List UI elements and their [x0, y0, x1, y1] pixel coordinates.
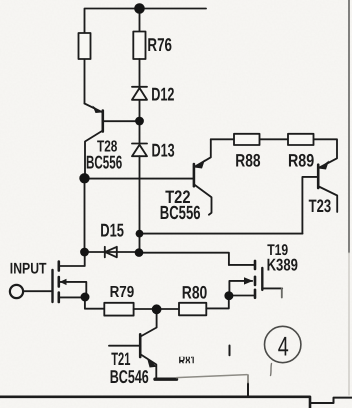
- svg-text:R80: R80: [182, 282, 208, 302]
- wire R79 to R80: [134, 308, 179, 310]
- arrow T28 emitter: [93, 106, 102, 114]
- fet left source wire: [59, 296, 85, 298]
- transistor T23 collector: [319, 187, 337, 212]
- svg-text:BC546: BC546: [110, 366, 149, 387]
- transistor T22 emitter: [195, 139, 211, 166]
- wire fet left source to R79: [85, 297, 104, 309]
- node R79 R80 junction: [152, 304, 162, 314]
- svg-text:R79: R79: [110, 284, 135, 301]
- node D15 right: [135, 248, 144, 257]
- transistor T28 base bar: [102, 111, 105, 132]
- svg-text:BC556: BC556: [160, 203, 201, 224]
- arrow T21 emitter: [147, 357, 157, 367]
- arrow T23 emitter: [319, 161, 330, 170]
- resistor R79: [104, 303, 133, 316]
- diode D13: [132, 144, 147, 157]
- fet left body wire: [60, 282, 86, 295]
- wire row 139 with R88 R89: [211, 139, 337, 167]
- fet T19 channel: [254, 261, 257, 298]
- resistor R89: [288, 134, 314, 145]
- svg-text:T23: T23: [309, 196, 332, 216]
- fading emitter wire: [177, 375, 248, 378]
- circle tail: [271, 364, 272, 376]
- resistor R88: [234, 134, 260, 145]
- transistor T21 emitter: [141, 355, 157, 379]
- resistor R76: [133, 32, 145, 60]
- svg-text:BC556: BC556: [86, 152, 122, 173]
- diode D15: [85, 247, 140, 257]
- transistor T21 collector: [141, 309, 157, 336]
- label R81 fragment: [179, 353, 196, 370]
- bottom step: [310, 398, 352, 403]
- node D15 anode left: [80, 248, 89, 257]
- svg-text:4: 4: [278, 331, 289, 361]
- fet left channel: [57, 262, 60, 303]
- wire T23 base to row 233: [302, 177, 317, 234]
- wire row 233: [140, 233, 303, 235]
- wire top rail: [85, 9, 207, 34]
- wire T28 base to node: [104, 120, 140, 122]
- fet T19 drain wire: [229, 264, 255, 266]
- arrowheads: [60, 106, 329, 368]
- transistor Q T28 emitter: [85, 104, 102, 112]
- right edge vertical line: [348, 0, 350, 253]
- wire left column mid: [84, 178, 86, 252]
- fet left gate bar: [51, 270, 53, 302]
- input terminal circle: [10, 285, 23, 298]
- wire R80 to T19 source node: [206, 296, 229, 309]
- wire left column upper: [84, 59, 86, 104]
- svg-text:D13: D13: [152, 140, 175, 161]
- svg-text:R88: R88: [235, 151, 260, 171]
- stray vertical dash: [229, 346, 231, 356]
- node row 233: [136, 230, 144, 238]
- svg-text:K389: K389: [267, 256, 298, 275]
- svg-text:D12: D12: [151, 84, 174, 105]
- wire main column top: [139, 9, 141, 32]
- wire row 252 right: [140, 253, 229, 265]
- arrow fet T19 body: [244, 277, 253, 284]
- fet T19 source wire: [229, 295, 255, 297]
- resistor unlabeled top-left: [79, 33, 91, 59]
- fet T19 body wire: [229, 281, 252, 296]
- svg-text:R89: R89: [288, 151, 314, 171]
- transistor T22 collector: [195, 185, 212, 215]
- wire node row 178: [85, 178, 194, 180]
- transistor T21 base bar: [139, 334, 142, 357]
- wire D12 to junction: [139, 100, 141, 143]
- fet left drain wire: [59, 252, 85, 266]
- fet T19 gate lead: [262, 287, 282, 289]
- stray vertical line bottom: [247, 383, 249, 397]
- node T28 collector: [79, 173, 89, 183]
- svg-text:D15: D15: [100, 220, 124, 241]
- svg-text:R76: R76: [147, 34, 172, 55]
- wire R76 to D12: [139, 59, 141, 87]
- transistor T23 base bar: [317, 165, 320, 188]
- arrow fet left body: [60, 279, 67, 285]
- arrow T22 emitter: [195, 160, 206, 169]
- transistor T21 base lead: [109, 345, 139, 347]
- svg-text:INPUT: INPUT: [10, 261, 47, 278]
- bottom border line: [0, 397, 310, 408]
- diode D12: [132, 87, 147, 100]
- node fet left source: [81, 293, 90, 302]
- transistor T21 emitter wire thick: [155, 378, 177, 381]
- wire input to gate: [23, 290, 52, 292]
- transistor T22 base bar: [193, 164, 196, 186]
- circled 4: [265, 326, 301, 362]
- node T19 source: [224, 291, 233, 300]
- resistor R80: [179, 303, 206, 316]
- node D12 D13 base T28: [135, 117, 144, 126]
- wire D13 down main column: [139, 156, 141, 253]
- transistor T28 collector: [85, 131, 103, 179]
- node top rail: [134, 3, 145, 14]
- fet T19 gate bar: [261, 268, 263, 290]
